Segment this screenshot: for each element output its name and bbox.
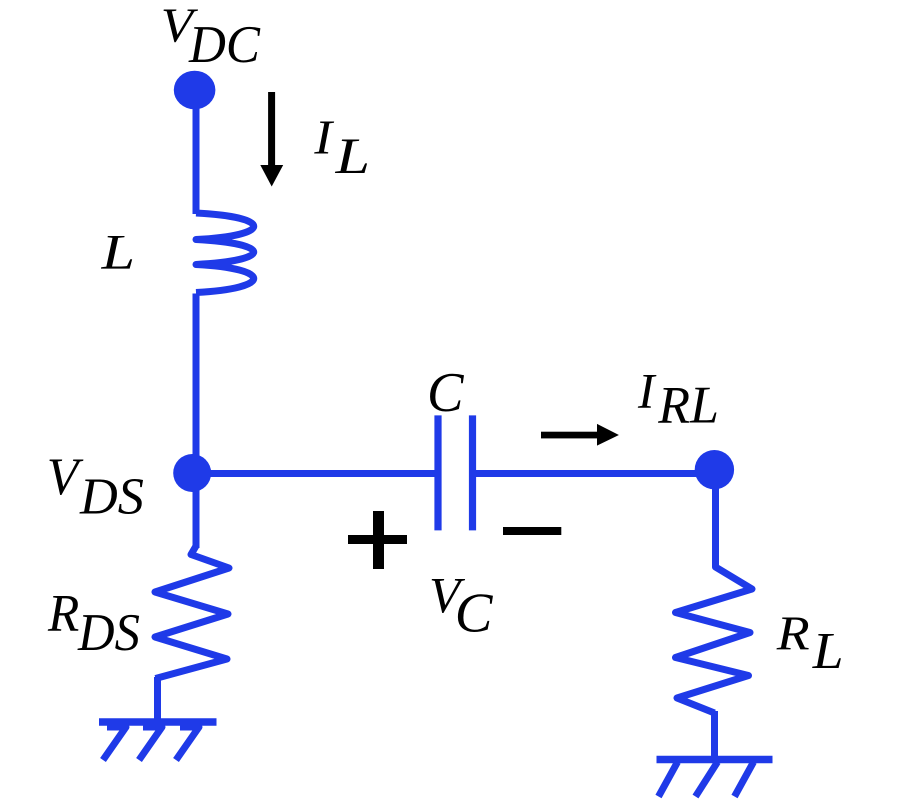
svg-text:I: I: [637, 363, 657, 419]
svg-text:R: R: [776, 606, 810, 661]
svg-text:C: C: [427, 362, 465, 424]
svg-text:L: L: [812, 623, 844, 680]
svg-text:C: C: [455, 583, 493, 645]
svg-text:DS: DS: [79, 468, 144, 526]
svg-text:R: R: [47, 585, 79, 643]
svg-text:I: I: [313, 110, 335, 165]
svg-text:DC: DC: [188, 14, 261, 74]
svg-text:RL: RL: [657, 377, 719, 435]
svg-text:L: L: [100, 225, 135, 280]
svg-text:DS: DS: [77, 604, 140, 662]
svg-text:L: L: [334, 128, 370, 184]
